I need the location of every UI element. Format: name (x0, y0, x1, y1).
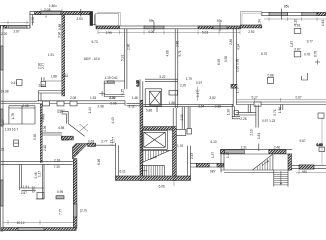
svg-text:(2.0): (2.0) (80, 209, 87, 213)
svg-text:2.19: 2.19 (180, 114, 184, 120)
svg-text:1.17: 1.17 (196, 91, 200, 97)
svg-text:1.90: 1.90 (31, 17, 35, 23)
svg-text:0.88: 0.88 (268, 74, 274, 78)
svg-text:1.76: 1.76 (177, 144, 183, 148)
svg-text:1.34: 1.34 (258, 19, 262, 25)
svg-text:2.93: 2.93 (76, 17, 82, 21)
svg-text:2.67: 2.67 (14, 30, 20, 34)
svg-text:5.70: 5.70 (261, 52, 267, 56)
svg-text:19.38: 19.38 (1, 90, 9, 94)
svg-text:1.91: 1.91 (48, 53, 54, 57)
svg-text:1.11: 1.11 (110, 140, 114, 146)
svg-text:2.31: 2.31 (241, 145, 247, 149)
svg-text:5.17: 5.17 (252, 95, 258, 99)
svg-text:0.88: 0.88 (58, 24, 62, 30)
svg-text:2.99: 2.99 (106, 31, 112, 35)
svg-text:4.55: 4.55 (57, 110, 63, 114)
svg-text:85v: 85v (284, 5, 290, 9)
svg-text:0.87: 0.87 (294, 48, 300, 52)
svg-text:2.20: 2.20 (180, 83, 186, 87)
svg-text:1.25: 1.25 (121, 89, 125, 95)
svg-text:4.68: 4.68 (166, 50, 170, 56)
svg-text:2.98: 2.98 (98, 104, 104, 108)
svg-text:2.28: 2.28 (240, 117, 246, 121)
svg-text:3.22: 3.22 (159, 75, 165, 79)
svg-text:0.88: 0.88 (215, 105, 221, 109)
svg-text:0.97: 0.97 (196, 81, 202, 85)
svg-text:1.90: 1.90 (226, 109, 230, 115)
svg-text:0.62: 0.62 (62, 74, 68, 78)
svg-text:0.82: 0.82 (32, 186, 36, 192)
svg-text:1.93 16.7: 1.93 16.7 (5, 128, 19, 132)
svg-text:2.77: 2.77 (41, 63, 45, 69)
svg-text:2.12: 2.12 (129, 104, 135, 108)
svg-text:1.87: 1.87 (290, 41, 294, 47)
svg-text:7.39: 7.39 (54, 165, 60, 169)
svg-text:2.77: 2.77 (101, 140, 107, 144)
svg-text:5.90: 5.90 (33, 134, 37, 140)
svg-text:2.86: 2.86 (126, 44, 130, 50)
svg-text:9.77: 9.77 (307, 39, 313, 43)
svg-text:3.60: 3.60 (39, 84, 45, 88)
svg-text:5.71: 5.71 (178, 50, 182, 56)
svg-text:0.99: 0.99 (57, 190, 63, 194)
svg-text:2.87: 2.87 (21, 191, 27, 195)
svg-text:9.67: 9.67 (300, 139, 306, 143)
svg-text:7.77: 7.77 (59, 209, 63, 215)
svg-text:2.10: 2.10 (249, 129, 253, 135)
svg-text:180Y - 42.6: 180Y - 42.6 (84, 57, 101, 61)
svg-text:0.50: 0.50 (224, 56, 228, 62)
svg-text:2.08: 2.08 (22, 104, 28, 108)
svg-text:-2.20: -2.20 (0, 32, 7, 36)
svg-text:2.89: 2.89 (229, 39, 233, 45)
svg-text:99v: 99v (149, 19, 155, 23)
svg-text:3.82: 3.82 (210, 96, 216, 100)
svg-text:1.79: 1.79 (186, 77, 192, 81)
svg-text:1.91: 1.91 (23, 185, 29, 189)
svg-text:.21: .21 (0, 148, 5, 152)
svg-text:2.03: 2.03 (44, 8, 50, 12)
svg-text:0.25: 0.25 (136, 80, 140, 86)
svg-text:1.48: 1.48 (132, 96, 138, 100)
svg-text:0.76: 0.76 (304, 53, 310, 57)
svg-text:98Y: 98Y (210, 170, 217, 174)
svg-text:1.61: 1.61 (321, 20, 325, 26)
svg-text:6.10: 6.10 (211, 140, 217, 144)
svg-text:2.54: 2.54 (198, 105, 204, 109)
svg-text:2.86: 2.86 (176, 41, 180, 47)
svg-text:1.86: 1.86 (169, 101, 175, 105)
svg-text:1.65 0.88: 1.65 0.88 (236, 58, 240, 72)
svg-text:2.74: 2.74 (62, 138, 68, 142)
svg-text:2.48: 2.48 (274, 145, 280, 149)
svg-text:1.61: 1.61 (257, 133, 261, 139)
svg-text:1.37: 1.37 (211, 152, 215, 158)
svg-text:7.78: 7.78 (42, 114, 46, 120)
svg-text:93v: 93v (217, 19, 223, 23)
svg-text:2.43: 2.43 (190, 153, 194, 159)
svg-text:2.08: 2.08 (70, 96, 76, 100)
svg-text:10.12: 10.12 (17, 221, 25, 225)
svg-text:1.17: 1.17 (226, 152, 230, 158)
svg-text:7.97: 7.97 (1, 119, 5, 125)
svg-text:1.53: 1.53 (90, 96, 96, 100)
svg-text:1.44: 1.44 (88, 107, 92, 113)
svg-text:6.06: 6.06 (159, 185, 165, 189)
svg-text:0.60: 0.60 (317, 143, 323, 147)
svg-text:0.61: 0.61 (294, 23, 300, 27)
svg-text:5.03: 5.03 (202, 31, 208, 35)
svg-text:0.41: 0.41 (11, 81, 17, 85)
svg-text:3.96: 3.96 (58, 32, 62, 38)
svg-text:1.80v: 1.80v (49, 4, 57, 8)
svg-text:0.63: 0.63 (88, 140, 94, 144)
svg-text:2.18: 2.18 (54, 158, 60, 162)
svg-text:6.96: 6.96 (97, 159, 101, 165)
svg-text:4.96: 4.96 (43, 125, 47, 131)
svg-text:1.17: 1.17 (38, 171, 42, 177)
svg-text:4.94: 4.94 (237, 44, 241, 50)
svg-text:1.72: 1.72 (236, 87, 240, 93)
svg-text:0.71: 0.71 (273, 109, 277, 115)
svg-text:0.67: 0.67 (296, 95, 302, 99)
svg-text:1.78: 1.78 (11, 113, 15, 119)
svg-text:6.95: 6.95 (217, 59, 221, 65)
svg-text:4.98: 4.98 (58, 126, 64, 130)
svg-text:1.86: 1.86 (278, 107, 282, 113)
svg-text:2.06: 2.06 (110, 102, 116, 106)
svg-text:1.19 0.61: 1.19 0.61 (105, 76, 119, 80)
svg-text:1.88: 1.88 (51, 75, 57, 79)
svg-text:2.20: 2.20 (110, 96, 116, 100)
svg-text:5.73: 5.73 (92, 40, 98, 44)
svg-text:5.86: 5.86 (146, 109, 152, 113)
svg-text:6.21: 6.21 (120, 170, 126, 174)
svg-text:4.43: 4.43 (111, 117, 115, 123)
svg-text:0.97 1.23: 0.97 1.23 (262, 119, 276, 123)
svg-text:5.91: 5.91 (121, 55, 125, 61)
svg-text:4.06: 4.06 (148, 30, 154, 34)
svg-text:981: 981 (302, 170, 308, 174)
svg-text:2.10: 2.10 (43, 145, 47, 151)
svg-text:2.92: 2.92 (248, 30, 254, 34)
svg-text:8.78: 8.78 (314, 51, 318, 57)
